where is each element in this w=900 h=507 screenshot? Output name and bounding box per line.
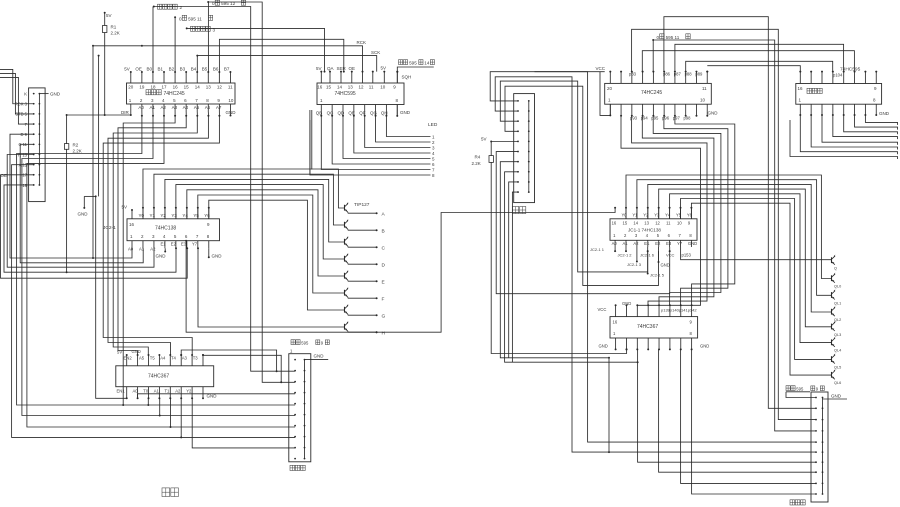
svg-text:T4: T4 [171,355,177,360]
svg-text:OE: OE [1,173,8,178]
net flag wire B5 up [207,2,209,72]
svg-text:16: 16 [317,84,323,89]
svg-text:B1: B1 [158,67,164,72]
svg-text:2.2K: 2.2K [111,31,120,36]
transistor QR6 [831,339,833,345]
svg-text:A7: A7 [216,105,222,110]
svg-text:17: 17 [162,84,168,89]
wire DN row9 bus [509,182,518,358]
svg-text:15: 15 [326,84,332,89]
wire U4 T0 row5 [147,398,149,405]
ground U3 pin4 [164,248,166,251]
svg-text:10: 10 [700,98,706,103]
svg-text:VCC: VCC [596,66,606,71]
wire row H bus to right half [186,208,615,332]
IC U5 74HC245 box [605,83,712,104]
connector lower-right label last-595-pin9 [786,386,790,391]
IC U8 74HC367 box [610,317,698,338]
wire U5 pin elbow C long drop row4 [653,40,816,431]
svg-text:11: 11 [369,84,374,89]
svg-text:Y7: Y7 [192,242,198,247]
svg-text:E1: E1 [644,241,650,246]
svg-text:GND: GND [708,111,719,116]
wire U5 pin elbow B long drop row3 [632,29,816,419]
svg-text:SCK: SCK [371,50,380,55]
svg-text:LED: LED [428,122,438,128]
wire led extra vertical [309,110,311,175]
svg-text:2.2K: 2.2K [73,149,82,154]
transistor Q3 TIP127 [344,239,346,245]
svg-text:B7: B7 [224,67,230,72]
svg-text:p93: p93 [630,115,638,120]
svg-text:0: 0 [657,35,660,40]
U1 bottom pin stubs [130,104,132,113]
svg-text:0: 0 [179,16,182,21]
svg-text:GND: GND [688,241,697,246]
svg-text:OE: OE [135,67,142,72]
U1 top pin stubs [130,72,132,83]
connector DN pins [517,100,519,102]
svg-text:14: 14 [337,84,343,89]
svg-text:5V: 5V [381,66,387,71]
svg-text:QH: QH [381,111,388,116]
U8 top stubs [615,305,617,316]
svg-text:Y7: Y7 [677,241,683,246]
U7 pin1 stub dot [614,247,616,251]
wire JC2 row7 to 138 A2 [7,155,154,268]
IC U1 74HC245 box [127,83,236,104]
wire DN row8 bus [505,172,638,362]
svg-text:14: 14 [424,61,430,66]
svg-text:E1: E1 [161,242,167,247]
wire B6 to SER rail [219,39,343,72]
svg-text:A6: A6 [205,105,211,110]
ground GND mid-left [83,196,85,208]
U7 pin3 stub [636,247,638,262]
svg-text:JC2-1: JC2-1 [103,225,116,231]
svg-text:QL1: QL1 [834,301,841,305]
connector lower-right box [811,392,828,502]
svg-text:14: 14 [195,84,201,89]
wire U1 A3 to 367 down-bundle [123,113,175,406]
svg-text:QL5: QL5 [834,365,841,369]
svg-text:GND: GND [400,110,411,115]
svg-text:p86: p86 [663,72,671,77]
svg-text:14: 14 [633,220,638,225]
U7 pin5 E2 gnd stub [658,247,660,262]
svg-text:K: K [24,91,27,96]
connector JC2 box [29,88,45,202]
U7 pin4 down wire [647,251,649,273]
svg-text:QA: QA [327,66,334,71]
U1 GND pin dot [230,113,232,116]
wire U1 A5 to 367 [113,113,197,356]
wire collector row H [347,331,349,332]
svg-text:20: 20 [607,86,613,91]
svg-text:2.2K: 2.2K [472,161,481,166]
label shang-pai (upper row) [162,488,170,497]
wire 595R pin16 hook to U5 pin11 [707,66,800,72]
wire U4 T1 row7 [170,398,172,427]
wire U4 Y2 row9 [192,398,295,448]
resistor R2 2.2K [66,114,68,116]
IC U4 74HC367 box [116,366,214,387]
svg-text:G: G [382,314,386,320]
svg-text:p153: p153 [682,253,692,258]
svg-text:Y5: Y5 [193,213,199,218]
wire DN row7 bus to BR row6 tee [500,162,609,358]
svg-text:Y6: Y6 [204,213,210,218]
svg-text:19: 19 [139,84,145,89]
connector lower-left header box [289,354,311,462]
svg-text:B4: B4 [191,67,197,72]
svg-text:B0: B0 [146,67,152,72]
svg-text:QL6: QL6 [834,381,841,385]
svg-text:595: 595 [301,341,309,346]
svg-text:GND: GND [879,111,890,116]
svg-text:595 11: 595 11 [666,35,680,40]
svg-text:74HC595: 74HC595 [335,91,356,97]
transistor Q6 TIP127 [344,290,346,296]
net flag 0se595 12pin [207,1,209,3]
transistor QR5 [831,324,833,330]
wire U1 A0 staircase left [17,113,296,406]
U6 bottom stubs [799,104,801,115]
svg-text:A5: A5 [139,355,145,360]
wire U5 elbow E to 595R SCK [642,51,854,72]
U7 Y7 p153 wire to transistor R1 [681,247,832,260]
svg-text:QB: QB [316,111,323,116]
U3 bottom stubs [131,241,133,249]
connector lower-right gnd bus [822,398,824,495]
IC U3 74HC138 box [127,219,220,241]
wire U1 A6 to 367 [108,113,208,356]
svg-text:GND: GND [212,254,223,259]
svg-text:p139p140p141p142: p139p140p141p142 [661,308,697,313]
wire collector row B [347,229,349,230]
transistor QR8 [831,372,833,378]
svg-text:GND: GND [700,344,709,349]
svg-text:A1: A1 [154,388,160,393]
connector JC2 gnd bus [38,94,40,185]
U2 top pin stubs [320,72,322,83]
svg-text:B: B [382,229,385,235]
svg-text:B5: B5 [202,67,208,72]
svg-text:GND: GND [599,344,608,349]
svg-text:p98: p98 [684,115,692,120]
U7 top stubs [625,208,627,219]
svg-text:QL0: QL0 [834,285,841,289]
svg-text:11: 11 [666,220,671,225]
svg-text:H: H [382,331,386,337]
svg-text:R4: R4 [475,155,481,160]
svg-text:5V: 5V [124,67,130,72]
transistor QR7 [831,356,833,362]
svg-text:5V: 5V [117,349,122,354]
U8 bottom stubs [615,338,617,349]
svg-text:p97: p97 [673,115,681,120]
transistor Q1 TIP127 [344,205,346,211]
svg-text:A2: A2 [161,105,167,110]
U7 pin4 E1 dot [647,250,649,252]
transistor QR1 [831,257,833,263]
wire U8 outputs to lower-right connector [638,349,816,462]
svg-text:R2: R2 [73,143,79,148]
svg-text:16: 16 [613,319,618,324]
U7 pin6 E3 dot [669,250,671,252]
svg-text:13: 13 [206,84,212,89]
U4 bottom stubs [126,387,128,399]
wire U6 staircase extra [790,120,898,159]
svg-text:11: 11 [228,84,233,89]
wire GND to EN1 [96,196,127,398]
svg-text:A1: A1 [623,241,629,246]
wire vertical 609 bus [608,358,610,452]
transistor Q5 TIP127 [344,273,346,279]
svg-text:p96: p96 [662,115,670,120]
svg-text:F: F [382,297,385,303]
U2 SQH flag next-595-pin14 [396,72,398,83]
svg-text:JC2-1 2: JC2-1 2 [618,252,633,257]
svg-text:20: 20 [128,84,134,89]
svg-text:A3: A3 [172,105,178,110]
connector DN box [514,94,535,203]
svg-text:p95: p95 [651,115,659,120]
wire DN row10 stub [512,192,518,362]
svg-text:16: 16 [612,220,617,225]
wire U6 output staircase to edge [865,115,897,125]
net flag xiaji-port-2 [153,6,155,8]
svg-text:OE: OE [349,66,356,71]
svg-text:A1: A1 [139,247,145,252]
wire vertical net x93 [92,46,94,258]
svg-text:E3: E3 [666,241,672,246]
U7 bottom stubs [614,240,616,247]
svg-text:T1: T1 [165,388,171,393]
wire U1 A1 staircase left [22,113,295,416]
wire U5 elbow D to 595R [675,44,844,71]
wire U4 A2 row8 [180,398,182,437]
svg-text:p87: p87 [674,72,682,77]
svg-text:10: 10 [228,98,234,103]
svg-text:SER: SER [337,66,347,71]
svg-text:16: 16 [129,222,135,227]
svg-text:RCK: RCK [357,40,367,45]
svg-text:A2: A2 [150,247,156,252]
svg-text:10: 10 [380,84,386,89]
svg-text:B6: B6 [213,67,219,72]
wire JC2 row9 OE to 138 E3 [1,175,188,278]
svg-text:13: 13 [644,220,649,225]
svg-text:18: 18 [150,84,156,89]
wire JC2 row10 to E2 line [4,185,176,272]
wire U4 A1 row6 [159,398,161,415]
U3 pin6 dot [186,247,188,249]
wire U4 T4 to connector row2 [181,350,276,371]
svg-text:A3: A3 [182,355,188,360]
wire U1 A2 staircase left [27,113,295,428]
net flag 0se595-11pin right [652,39,654,41]
wire fan U7 Y0-Y6 to right transistor bases [626,175,832,279]
U3 pin5 dot [175,247,177,249]
svg-text:Y2: Y2 [186,388,192,393]
svg-text:Y3: Y3 [171,213,177,218]
svg-text:595 11: 595 11 [188,16,202,21]
svg-text:C: C [382,246,386,252]
svg-text:74HC245: 74HC245 [641,90,662,96]
wire U1 A7 to 367 [103,113,219,356]
svg-text:T3: T3 [193,355,199,360]
transistor QR2 [831,275,833,281]
connector lower-left label last-595-pin9 [291,340,295,345]
wire collector row A [347,212,349,213]
svg-text:A4: A4 [160,355,166,360]
svg-text:DIR: DIR [121,110,130,115]
svg-text:5V: 5V [481,136,487,141]
svg-text:11: 11 [702,86,707,91]
svg-text:A5: A5 [194,105,200,110]
wire LED staircase 1-8 [385,115,387,117]
wire U4 A0 row4 [137,394,139,399]
svg-text:QC: QC [327,111,335,116]
svg-text:74HC245: 74HC245 [164,91,185,97]
connector lower-right pins [815,397,817,399]
connector lower-left gnd bus [304,360,306,459]
svg-text:p88: p88 [685,72,693,77]
svg-text:16: 16 [798,86,804,91]
wire collector row E [347,280,349,281]
U5 VCC wrap wire [600,72,610,116]
svg-text:JC2-1 3: JC2-1 3 [627,262,642,267]
svg-text:74HC138: 74HC138 [155,226,176,232]
U1 DIR wire to R2 net [67,114,131,116]
svg-text:12: 12 [655,220,660,225]
svg-text:GND: GND [314,354,325,359]
transistor Q2 TIP127 [344,222,346,228]
transistor QR4 [831,309,833,315]
connector DN label xia-pai [513,207,519,214]
svg-text:QD: QD [338,111,346,116]
wire spiral arm row1 [490,72,816,442]
wire JC2 row4 hook up-left [0,77,34,124]
svg-text:p104: p104 [833,73,843,78]
svg-text:12: 12 [359,84,365,89]
wire JC2 row6 to 138 A1 [20,144,143,262]
net flag xiaji-port-3 [186,27,188,29]
svg-text:GND: GND [78,212,89,217]
wire label underline to row1 [786,392,816,398]
svg-text:T0: T0 [143,388,149,393]
svg-text:JC2-1 5: JC2-1 5 [650,273,665,278]
connector DN gnd bus [528,101,530,192]
connector lower-left label jie-xia-ji [290,465,295,470]
U3 top pin stubs Y0-Y6 [142,208,144,219]
IC U6 74HC595 box first-block [796,84,882,105]
svg-text:GND: GND [50,92,61,97]
svg-text:QL4: QL4 [834,349,841,353]
svg-text:p94: p94 [641,115,649,120]
U7 pin2 stub dot [625,247,627,251]
wire DN row6 to E3 net [496,152,670,294]
svg-text:12: 12 [217,84,223,89]
connector lower-left pins [294,359,296,361]
connector lower-right label jie-xia-ji [790,500,795,505]
svg-text:T5: T5 [150,355,156,360]
U5 bottom stubs [609,104,611,116]
connector JC2 GND label top right [39,93,48,95]
wire JC2 row2 hook up-left [0,69,34,103]
wire spiral arm row3 [500,81,647,272]
net flag 0se595 11pin [174,16,176,18]
wire U5 elbow F to 595R [686,61,833,71]
wire collector row C [347,246,349,247]
IC U7 74HC138 box JC1-1 [610,219,697,241]
wire R4 bus to right-367 [491,162,626,353]
U5 top stubs [609,72,611,84]
svg-text:Y1: Y1 [149,213,155,218]
svg-text:SQH: SQH [402,75,412,80]
svg-text:Y0: Y0 [138,213,144,218]
svg-text:GND: GND [661,263,670,268]
wire spiral arm row2 [495,77,816,452]
wire spiral arm row4 [505,86,659,285]
svg-text:A2: A2 [633,241,639,246]
svg-text:QF: QF [359,111,366,116]
svg-text:A2: A2 [175,388,181,393]
svg-text:B2: B2 [169,67,175,72]
svg-text:B3: B3 [180,67,186,72]
IC U2 74HC595 box [317,83,404,105]
svg-text:E2: E2 [171,242,177,247]
svg-text:VCC: VCC [666,252,675,257]
svg-text:595: 595 [796,387,804,392]
svg-text:JC2-1 1: JC2-1 1 [590,247,605,252]
transistor QR3 [831,292,833,298]
svg-text:D: D [382,263,386,269]
U4 top stubs and dots [126,355,128,366]
wire B0 up to flag [152,7,154,73]
svg-text:A0: A0 [128,247,134,252]
wire collector row F [347,297,349,298]
wire vertical net x98.6 [98,56,100,197]
svg-text:GND: GND [831,394,842,399]
svg-text:A0: A0 [138,105,144,110]
wire JC2 row3 hook up-left [0,73,34,114]
svg-text:p89: p89 [695,72,703,77]
svg-text:E: E [382,280,385,286]
svg-text:13: 13 [348,84,354,89]
svg-text:5V: 5V [122,205,128,210]
wire JC2 row8 long bottom [12,165,296,438]
svg-text:15: 15 [623,220,628,225]
transistor Q7 TIP127 [344,307,346,313]
svg-text:A0: A0 [133,388,139,393]
svg-text:Q: Q [834,267,837,271]
transistor Q4 TIP127 [344,256,346,262]
transistor Q8 TIP127 [344,324,346,330]
svg-text:TIP127: TIP127 [354,202,370,208]
svg-text:E2: E2 [655,241,661,246]
svg-text:15: 15 [184,84,190,89]
connector lower-left GND [305,359,329,361]
svg-text:JC1-1 74HC138: JC1-1 74HC138 [628,228,661,233]
svg-text:p83: p83 [629,72,637,77]
wire VCC rail from DN [535,71,605,73]
wire JC2 row5 to 138 A0 [10,134,132,258]
svg-text:VCC: VCC [598,307,607,312]
svg-text:R1: R1 [111,25,117,30]
svg-text:74HC367: 74HC367 [637,324,658,330]
